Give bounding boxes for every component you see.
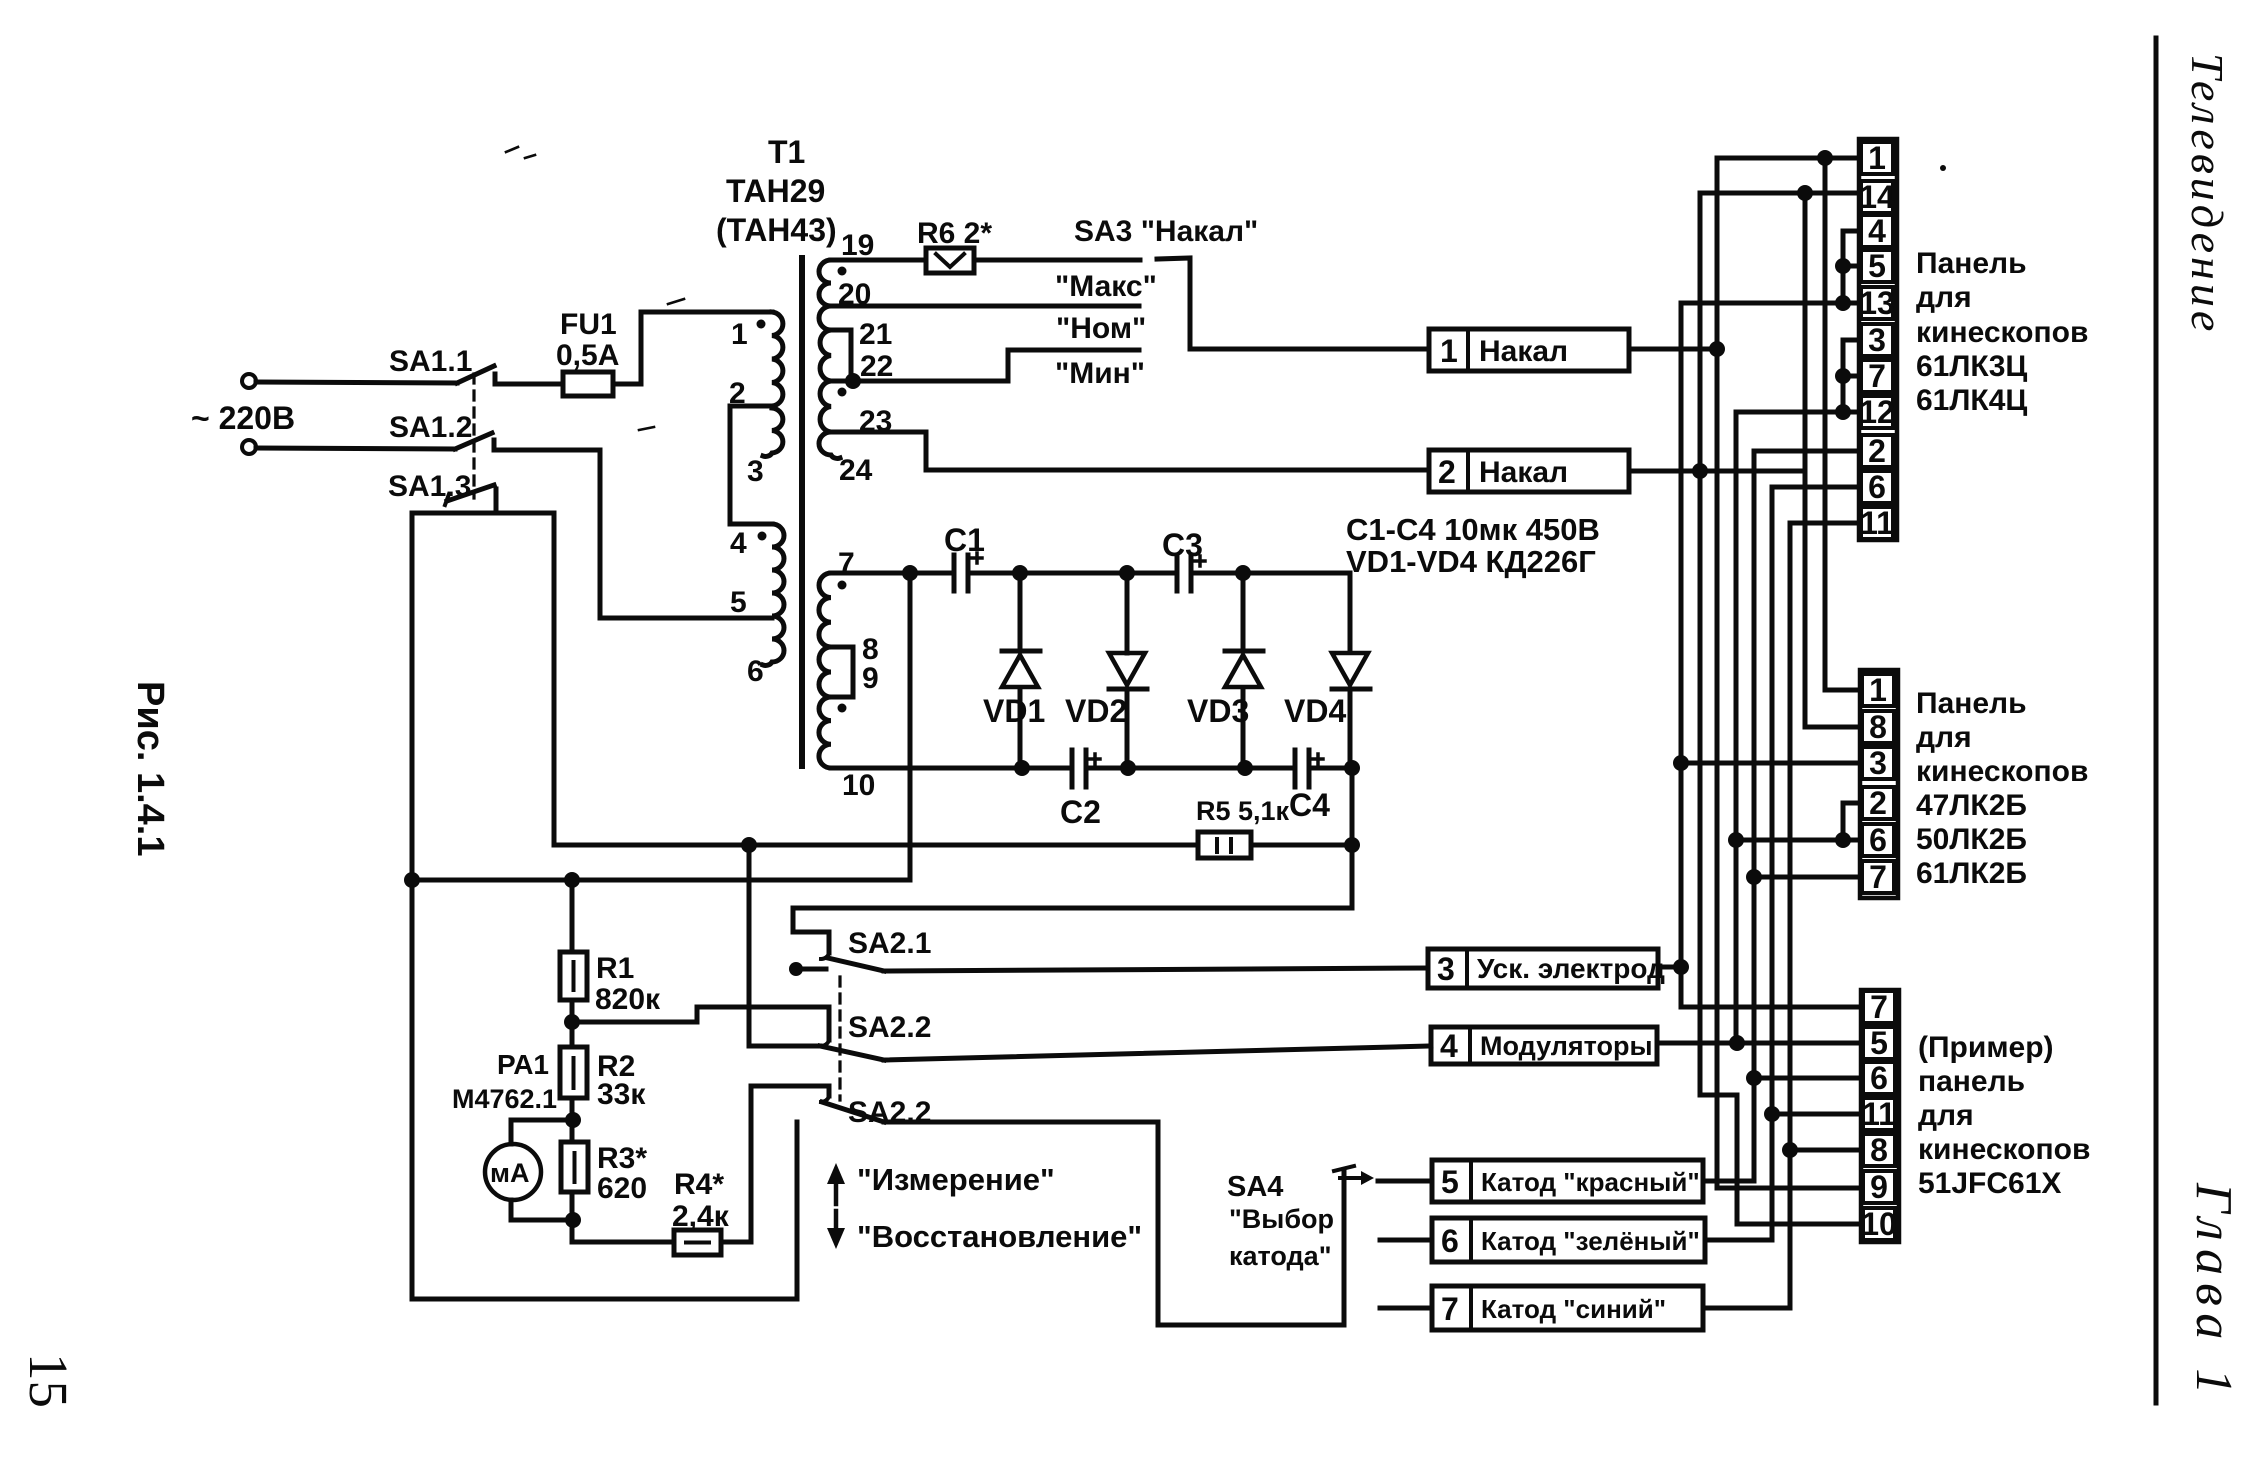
connector box 4 Модуляторы: [1431, 1027, 1657, 1064]
T1 winding 19-20 dot: [838, 267, 847, 276]
svg-text:для: для: [1916, 721, 1972, 754]
label SA2.2 upper: [848, 1011, 931, 1044]
wire pin21 tie: [831, 330, 851, 379]
svg-text:2,4к: 2,4к: [672, 1200, 730, 1233]
panel XS2 pin 3: [1862, 745, 1894, 781]
svg-text:C3: C3: [1162, 527, 1203, 563]
junction Уск bus: [1673, 959, 1689, 975]
T1 secondary winding 7-10: [819, 573, 831, 768]
svg-text:VD4: VD4: [1284, 693, 1346, 729]
svg-text:"Мин": "Мин": [1055, 357, 1145, 390]
svg-text:3: 3: [1869, 745, 1887, 781]
wire top rail C3 to VD4 column: [1191, 573, 1350, 652]
svg-text:14: 14: [1859, 179, 1895, 215]
label C3: [1162, 527, 1203, 563]
svg-text:Накал: Накал: [1479, 456, 1568, 489]
svg-text:7: 7: [1870, 989, 1888, 1025]
wire R5 to C4 node: [1251, 843, 1352, 848]
wire panel2 pin6 row: [1736, 838, 1860, 843]
junction 1 Накал bus: [1709, 341, 1725, 357]
resistor R2: [560, 1047, 587, 1098]
label SA2.1: [848, 927, 931, 960]
panel XS1 pin 4: [1861, 213, 1893, 249]
label Мин: [1055, 357, 1145, 390]
svg-text:7: 7: [1441, 1291, 1459, 1327]
junction panel3 pin11: [1764, 1106, 1780, 1122]
label panel XS3: [1918, 1031, 2090, 1200]
wire pin22 Мин: [831, 350, 1139, 381]
wire SA2.2a feed from R5 rail: [749, 845, 820, 1046]
svg-text:SA4: SA4: [1227, 1171, 1283, 1203]
capacitor C1: [954, 553, 982, 591]
panel XS3 pin 11: [1862, 1096, 1896, 1132]
svg-text:5: 5: [1870, 1025, 1888, 1061]
bus heater1 to panel2 pin1: [1825, 158, 1860, 690]
svg-text:8: 8: [1869, 709, 1887, 745]
resistor R3: [561, 1142, 588, 1192]
junction pin7 tie: [1835, 368, 1851, 384]
diode VD1: [1002, 573, 1040, 768]
wire SA2.1 to box Уск электрод: [884, 968, 1428, 971]
wire 220V line 1: [256, 382, 457, 383]
svg-text:панель: панель: [1918, 1065, 2025, 1098]
wire panel1 pin14 row: [1700, 191, 1859, 196]
svg-text:С1-С4 10мк 450В: С1-С4 10мк 450В: [1346, 512, 1600, 547]
junction pin14 row: [1797, 185, 1813, 201]
connector box 5 Катод красный: [1432, 1160, 1703, 1202]
label SA4 Выбор катода: [1227, 1171, 1334, 1271]
T1 primary winding 4-5-6: [763, 524, 784, 665]
svg-text:кинескопов: кинескопов: [1916, 316, 2088, 349]
wire R3 bottom: [570, 1192, 575, 1242]
page margin rule: [2154, 38, 2159, 1403]
label Ном: [1056, 312, 1146, 345]
svg-text:FU1: FU1: [560, 308, 617, 341]
svg-text:61ЛК2Б: 61ЛК2Б: [1916, 857, 2027, 890]
page number 15: [18, 1353, 79, 1408]
svg-text:Рис. 1.4.1: Рис. 1.4.1: [129, 681, 171, 856]
wire stub синий: [1380, 1306, 1432, 1311]
junction panel3 pin6: [1746, 1070, 1762, 1086]
bus heater1 vertical: [1717, 158, 1861, 1188]
wire 2 Накал to bus: [1629, 469, 1805, 474]
svg-text:47ЛК2Б: 47ЛК2Б: [1916, 789, 2027, 822]
junction panel2 pin6 bus: [1728, 832, 1744, 848]
terminal input bottom: [242, 440, 256, 454]
svg-text:VD1: VD1: [983, 693, 1045, 729]
terminal input top: [242, 374, 256, 388]
label R5 5,1к: [1196, 796, 1290, 826]
svg-text:VD1-VD4 КД226Г: VD1-VD4 КД226Г: [1346, 544, 1596, 579]
svg-text:~ 220В: ~ 220В: [191, 400, 295, 436]
label T1 ТАН29 (ТАН43): [716, 134, 837, 248]
junction VD3 top: [1235, 565, 1251, 581]
label SA1.1: [389, 345, 472, 378]
fuse FU1: [563, 372, 641, 396]
dashed link SA1: [472, 374, 475, 498]
svg-text:C2: C2: [1060, 794, 1101, 830]
junction VD2 bottom: [1120, 760, 1136, 776]
switch SA2.2 upper: [820, 1040, 884, 1060]
svg-text:61ЛК3Ц: 61ЛК3Ц: [1916, 350, 2027, 383]
meter PA1 loop bottom: [511, 1200, 573, 1220]
switch SA1.2: [455, 433, 505, 450]
svg-text:для: для: [1918, 1099, 1974, 1132]
svg-text:SA1.1: SA1.1: [389, 345, 472, 378]
wire 3 Уск to bus: [1658, 965, 1681, 970]
panel XS2 pin 2: [1862, 785, 1894, 821]
wire bottom rail: [412, 1122, 797, 1299]
wire panel1 pin3 tie: [1843, 340, 1859, 412]
svg-text:10: 10: [842, 769, 875, 802]
wire SA3 to box 1 Накал: [1190, 347, 1429, 352]
svg-text:VD2: VD2: [1065, 693, 1127, 729]
svg-text:21: 21: [859, 318, 892, 351]
svg-text:"Ном": "Ном": [1056, 312, 1146, 345]
label R1 820к: [595, 952, 661, 1016]
svg-text:51JFC61X: 51JFC61X: [1918, 1167, 2061, 1200]
svg-text:"Восстановление": "Восстановление": [857, 1219, 1142, 1254]
svg-text:2: 2: [1868, 433, 1886, 469]
wire C4 to VD4 bottom: [1309, 766, 1352, 771]
label ~220V: [191, 400, 295, 436]
junction pin7 node: [902, 565, 918, 581]
svg-text:3: 3: [1868, 322, 1886, 358]
panel XS1 pin 14: [1859, 179, 1895, 215]
junction R1 top: [564, 872, 580, 888]
bus heater2 vertical: [1700, 193, 1861, 1224]
svg-text:мА: мА: [490, 1158, 529, 1188]
label R4* 2,4к: [672, 1168, 730, 1233]
label Измерение: [857, 1162, 1055, 1197]
label VD4: [1284, 693, 1346, 729]
panel XS3 pin 6: [1863, 1060, 1895, 1096]
svg-text:4: 4: [1868, 213, 1886, 249]
wire HV node to SA2.1 input: [793, 845, 1352, 953]
wire panel1 pin12 row: [1736, 410, 1859, 415]
svg-text:R6 2*: R6 2*: [917, 217, 992, 250]
capacitor C3: [1177, 555, 1205, 591]
svg-text:SA3 "Накал": SA3 "Накал": [1074, 215, 1258, 248]
svg-text:11: 11: [1862, 1096, 1896, 1132]
svg-text:2: 2: [1869, 785, 1887, 821]
wire panel3 pin8 row: [1790, 1148, 1861, 1153]
svg-text:"Макс": "Макс": [1055, 270, 1157, 303]
label R3* 620: [597, 1142, 647, 1205]
T1 winding 7 dot: [838, 581, 847, 590]
svg-text:6: 6: [1868, 469, 1886, 505]
T1 secondary pin labels 19-24: [838, 229, 893, 487]
resistor R4: [674, 1230, 721, 1255]
switch SA2.1: [789, 953, 884, 976]
junction Модуляторы bus: [1729, 1035, 1745, 1051]
switch SA3: [1157, 258, 1190, 349]
svg-text:61ЛК4Ц: 61ЛК4Ц: [1916, 384, 2027, 417]
transformer T1 core: [799, 258, 805, 766]
svg-text:катода": катода": [1229, 1241, 1332, 1271]
junction panel2 pin3: [1673, 755, 1689, 771]
wire panel3 pin6 row: [1754, 1076, 1861, 1081]
wire right branch to R5 rail: [552, 513, 557, 845]
wire красный up to bus: [1703, 1179, 1754, 1184]
junction pin5 tie: [1835, 258, 1851, 274]
T1 pin1 dot: [757, 320, 766, 329]
svg-text:"Выбор: "Выбор: [1229, 1204, 1334, 1234]
panel XS1 pin 12: [1859, 394, 1895, 430]
wire R6 to Макс contact: [974, 258, 1140, 263]
junction pin12 tie: [1835, 404, 1851, 420]
wire VD4 bottom to R5 rail: [1350, 768, 1355, 845]
bus cathode red vertical: [1752, 451, 1757, 1181]
wire panel1 pin13 row: [1681, 301, 1859, 306]
svg-text:5: 5: [730, 586, 747, 619]
svg-text:(Пример): (Пример): [1918, 1031, 2054, 1064]
wire SA1.2 to T1 pin5: [505, 450, 772, 618]
junction pin13 tie: [1835, 295, 1851, 311]
junction R3 bottom node: [565, 1212, 581, 1228]
arrow Измерение/Восстановление: [827, 1163, 845, 1249]
wire panel3 pin11 row: [1772, 1112, 1861, 1117]
T1 primary winding 2-3: [763, 408, 783, 456]
wire pin10 bottom rail: [831, 766, 1072, 771]
svg-text:15: 15: [18, 1353, 79, 1408]
svg-text:7: 7: [1868, 358, 1886, 394]
wire 1 Накал to bus: [1629, 347, 1717, 352]
svg-text:Панель: Панель: [1916, 687, 2027, 720]
panel XS3 pin 10: [1861, 1206, 1897, 1242]
junction pin1 row: [1817, 150, 1833, 166]
label SA2.2 lower: [848, 1096, 931, 1129]
svg-text:Накал: Накал: [1479, 335, 1568, 368]
wire left bus down: [410, 513, 415, 1299]
T1 secondary winding 19-24: [819, 260, 840, 458]
wire 220V line 2: [256, 448, 455, 449]
wire pin23 to box 2 Накал: [831, 432, 1429, 470]
wire R1 to R2: [570, 1000, 575, 1047]
diode VD4: [1332, 653, 1370, 768]
svg-text:620: 620: [597, 1172, 647, 1205]
svg-text:R1: R1: [596, 952, 634, 985]
label VD2: [1065, 693, 1127, 729]
junction 2 Накал bus: [1692, 463, 1708, 479]
svg-text:22: 22: [860, 350, 893, 383]
label R2 33к: [597, 1050, 646, 1111]
label Восстановление: [857, 1219, 1142, 1254]
wire top rail C1 to C3: [968, 571, 1177, 576]
svg-text:12: 12: [1859, 394, 1895, 430]
wire panel1 pin7 stub: [1843, 374, 1859, 379]
junction panel3 pin8: [1782, 1142, 1798, 1158]
label PA1 М4762.1: [452, 1049, 557, 1114]
svg-text:19: 19: [841, 229, 874, 262]
svg-text:4: 4: [1440, 1028, 1458, 1064]
label VD1-VD4 values: [1346, 544, 1596, 579]
wire panel2 pin7 row: [1754, 875, 1860, 880]
svg-text:2: 2: [1438, 454, 1456, 490]
connector box 1 Накал: [1429, 329, 1629, 371]
wire panel2 pin3 row: [1681, 761, 1860, 766]
svg-text:11: 11: [1860, 505, 1894, 541]
capacitor C2: [1072, 750, 1100, 787]
junction VD3 bottom: [1237, 760, 1253, 776]
svg-text:1: 1: [731, 318, 748, 351]
svg-text:Катод "красный": Катод "красный": [1481, 1167, 1700, 1197]
panel XS3 pin 9: [1863, 1169, 1895, 1205]
svg-text:Катод "зелёный": Катод "зелёный": [1481, 1226, 1700, 1256]
label VD1: [983, 693, 1045, 729]
wire panel1 pin4 tie: [1843, 231, 1859, 303]
svg-text:кинескопов: кинескопов: [1916, 755, 2088, 788]
svg-text:6: 6: [747, 655, 764, 688]
svg-text:Телевидение: Телевидение: [2182, 53, 2233, 335]
T1 winding 22 dot: [838, 388, 847, 397]
junction left bus / divider rail: [404, 872, 420, 888]
panel XS1 pin 11: [1860, 505, 1894, 541]
svg-text:3: 3: [747, 455, 764, 488]
label C4: [1289, 787, 1330, 823]
svg-text:1: 1: [1440, 333, 1458, 369]
panel XS3 pin 7: [1863, 989, 1895, 1025]
svg-text:М4762.1: М4762.1: [452, 1084, 557, 1114]
panel XS1 pin 2: [1861, 433, 1893, 469]
svg-text:4: 4: [730, 527, 747, 560]
junction R5-C4: [1344, 837, 1360, 853]
T1 pin4 dot: [758, 532, 767, 541]
svg-text:1: 1: [1869, 672, 1887, 708]
svg-text:0,5А: 0,5А: [556, 339, 619, 372]
svg-text:Панель: Панель: [1916, 247, 2027, 280]
svg-text:(ТАН43): (ТАН43): [716, 212, 837, 248]
svg-text:8: 8: [1870, 1132, 1888, 1168]
svg-text:"Измерение": "Измерение": [857, 1162, 1055, 1197]
T1 primary winding 1-2: [772, 312, 783, 406]
bus cathode blue vertical: [1788, 523, 1793, 1308]
svg-text:13: 13: [1859, 285, 1895, 321]
svg-text:SA1.2: SA1.2: [389, 411, 472, 444]
svg-text:6: 6: [1869, 822, 1887, 858]
junction panel2 pin7: [1746, 869, 1762, 885]
T1 pin2 wire: [730, 406, 772, 524]
T1 pins 8-9 tie: [831, 647, 853, 697]
T1 secondary pin labels 7-10: [838, 547, 879, 802]
panel XS2 pin 6: [1862, 822, 1894, 858]
switch SA1.3: [445, 485, 496, 513]
meter PA1 loop top: [511, 1120, 573, 1144]
label C1: [944, 522, 985, 558]
junction R5 rail / SA2.2 feed: [741, 837, 757, 853]
svg-text:820к: 820к: [595, 983, 661, 1016]
svg-text:R3*: R3*: [597, 1142, 647, 1175]
panel XS1 pin 1: [1861, 140, 1893, 176]
panel XS1 pin 6: [1861, 469, 1893, 505]
wire panel1 pin1 row: [1717, 156, 1859, 161]
bus heater2 to panel2 pin8: [1805, 193, 1860, 727]
svg-text:24: 24: [839, 454, 873, 487]
wire R5 rail left: [554, 843, 1198, 848]
svg-text:Катод "синий": Катод "синий": [1481, 1294, 1666, 1324]
label мА: [490, 1158, 529, 1188]
svg-text:РА1: РА1: [497, 1049, 549, 1080]
label panel XS1: [1916, 247, 2088, 417]
junction VD1 top: [1012, 565, 1028, 581]
svg-text:33к: 33к: [597, 1078, 646, 1111]
junction panel2 pin6 tie: [1835, 832, 1851, 848]
label Макс: [1055, 270, 1157, 303]
connector box 2 Накал: [1429, 450, 1629, 492]
connector box 3 Уск. электрод: [1428, 949, 1665, 988]
svg-text:кинескопов: кинескопов: [1918, 1133, 2090, 1166]
wire pin7 rail top: [831, 571, 954, 576]
label FU1 0,5A: [556, 308, 619, 372]
wire panel2 pin2 tie: [1843, 803, 1860, 840]
svg-text:Модуляторы: Модуляторы: [1480, 1031, 1653, 1061]
stray dot right: [1940, 165, 1946, 171]
connector box 6 Катод зелёный: [1432, 1218, 1705, 1262]
wire pin7 node down to divider rail: [908, 573, 913, 880]
svg-text:10: 10: [1861, 1206, 1897, 1242]
svg-text:Уск. электрод: Уск. электрод: [1477, 953, 1665, 984]
svg-text:R5 5,1к: R5 5,1к: [1196, 796, 1290, 826]
svg-text:1: 1: [1868, 140, 1886, 176]
svg-text:Т1: Т1: [768, 134, 805, 170]
wire 4 Модуляторы to panel3 pin5: [1657, 1041, 1861, 1046]
T1 primary pin labels: [729, 318, 764, 688]
wire stub зелёный: [1380, 1238, 1432, 1243]
panel XS1 pin 5: [1861, 248, 1893, 284]
wire SA4 contact красный: [1378, 1179, 1432, 1184]
svg-text:2: 2: [729, 377, 746, 410]
label SA3 Накал: [1074, 215, 1258, 248]
svg-text:5: 5: [1441, 1164, 1459, 1200]
T1 winding 9 dot: [838, 704, 847, 713]
svg-text:9: 9: [862, 662, 879, 695]
wire pin19 to R6: [831, 258, 926, 263]
panel XS2 pin 8: [1862, 709, 1894, 745]
wire R3 to R4: [572, 1240, 674, 1245]
label SA1.2: [389, 411, 472, 444]
panel XS2 for 47ЛК2Б outer: [1860, 670, 1898, 898]
panel XS3 pin 8: [1863, 1132, 1895, 1168]
diode VD3: [1225, 573, 1263, 768]
panel XS1 pin 3: [1861, 322, 1893, 358]
label VD3: [1187, 693, 1249, 729]
wire R1-R2 node to SA2.2a contact: [572, 1007, 829, 1040]
wire pin20 Ном: [831, 304, 1139, 309]
svg-text:SA1.3: SA1.3: [388, 470, 471, 503]
footer text Глава 1: [2185, 1182, 2242, 1402]
bus modulator vertical: [1734, 412, 1739, 1043]
junction pin21-22: [845, 373, 861, 389]
svg-text:6: 6: [1441, 1223, 1459, 1259]
panel XS3 pin 5: [1863, 1025, 1895, 1061]
panel XS3 for 51JFC61X outer: [1861, 990, 1899, 1242]
panel XS2 pin 7: [1862, 859, 1894, 895]
wire bottom rail C2 to C4: [1086, 766, 1295, 771]
wire R1 top lead: [570, 880, 575, 952]
junction R1-R2 node: [564, 1014, 580, 1030]
svg-text:C4: C4: [1289, 787, 1330, 823]
svg-text:50ЛК2Б: 50ЛК2Б: [1916, 823, 2027, 856]
capacitor C4: [1295, 750, 1323, 787]
meter PA1: [485, 1144, 541, 1200]
svg-text:Глава 1: Глава 1: [2185, 1182, 2242, 1402]
svg-text:7: 7: [1869, 859, 1887, 895]
svg-text:5: 5: [1868, 248, 1886, 284]
wire SA2.2b to SA4: [884, 1122, 1344, 1325]
wire R4 to SA2.2b contact: [721, 1086, 829, 1242]
svg-text:R4*: R4*: [674, 1168, 724, 1201]
panel XS1 pin 7: [1861, 358, 1893, 394]
